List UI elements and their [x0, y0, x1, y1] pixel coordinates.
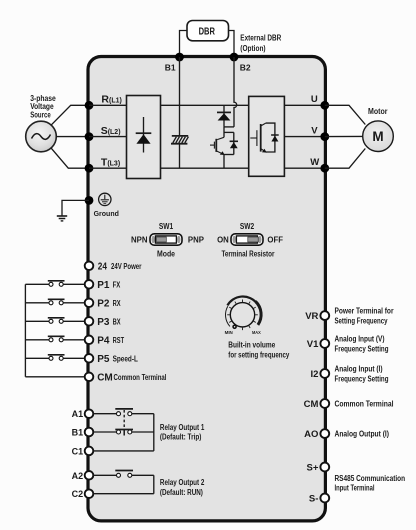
svg-text:Common Terminal: Common Terminal	[335, 399, 394, 408]
terminal A1 (relay 1)	[72, 409, 94, 419]
terminal W	[310, 157, 329, 173]
ground (protective earth badge)	[99, 193, 111, 205]
terminal AO	[304, 429, 329, 440]
svg-text:Source: Source	[30, 111, 51, 120]
wire B1 to DC link	[179, 57, 181, 135]
label Built-in volume for setting frequency	[228, 341, 290, 360]
svg-text:Setting Frequency: Setting Frequency	[335, 316, 389, 325]
wire B2 down with hop over DC+ bus	[234, 57, 237, 127]
terminal B1 (relay 1)	[72, 428, 94, 438]
label CM description	[335, 399, 394, 408]
terminal P2 (RX)	[85, 299, 121, 310]
switch contact P4	[25, 336, 84, 342]
terminal C2 (relay 2)	[72, 489, 94, 499]
terminal I2	[310, 369, 329, 380]
label VR description	[335, 307, 394, 326]
terminal CM (analog common)	[304, 399, 330, 410]
relay contact K2 NO (A2)	[93, 471, 154, 478]
terminal ground (junction on enclosure)	[85, 196, 94, 205]
ground (earth symbol)	[57, 216, 67, 221]
label Motor	[368, 107, 388, 116]
svg-text:MIN: MIN	[225, 330, 234, 336]
label RS485 description	[335, 474, 406, 493]
svg-text:(Default: Trip): (Default: Trip)	[160, 433, 202, 442]
svg-text:Mode: Mode	[157, 249, 176, 258]
wire Q1 emitter to DC-	[224, 155, 234, 169]
terminal 24 (24V power)	[85, 261, 142, 272]
svg-text:Input Terminal: Input Terminal	[335, 484, 375, 493]
svg-text:C1: C1	[72, 446, 84, 456]
svg-text:Analog Output (I): Analog Output (I)	[335, 430, 390, 439]
wire source to S(L2)	[56, 136, 89, 138]
svg-text:B1: B1	[72, 428, 84, 438]
svg-text:V: V	[311, 125, 318, 136]
label Terminal Resistor	[222, 249, 275, 258]
capacitor C1 (DC link)	[171, 136, 188, 168]
svg-text:C2: C2	[72, 489, 84, 499]
wire S to rectifier	[89, 136, 127, 138]
potentiometer VR1 (built-in volume)	[225, 297, 261, 331]
svg-text:DBR: DBR	[199, 26, 215, 37]
motor M1	[363, 121, 394, 152]
terminal U	[311, 94, 329, 110]
svg-text:Frequency Setting: Frequency Setting	[335, 344, 389, 353]
label External DBR (Option)	[240, 33, 281, 52]
svg-text:VR: VR	[305, 311, 318, 322]
svg-text:Relay Output 1: Relay Output 1	[160, 423, 205, 432]
svg-text:W: W	[310, 157, 319, 168]
wire ground lead	[62, 200, 89, 215]
svg-text:RX: RX	[113, 299, 122, 308]
terminal B1	[165, 53, 184, 73]
rectifier bridge block	[127, 96, 161, 179]
wire U to motor	[325, 105, 366, 124]
label 3-phase Voltage Source	[30, 94, 56, 120]
diode D1 (rectifier symbol)	[136, 117, 152, 153]
svg-text:S-: S-	[309, 494, 319, 505]
label I2 description	[335, 365, 389, 384]
wire inverter to U	[284, 104, 324, 106]
wire C2 to relay common	[93, 475, 154, 493]
label ON	[217, 235, 229, 244]
svg-text:S+: S+	[307, 463, 319, 474]
terminal S(L2)	[85, 125, 121, 141]
terminal P4 (RST)	[85, 336, 125, 347]
svg-text:Relay Output 2: Relay Output 2	[160, 478, 205, 487]
label MAX	[252, 330, 261, 336]
wire digital input bus	[24, 284, 26, 377]
svg-text:24V Power: 24V Power	[111, 262, 142, 271]
label Relay Output 2	[160, 478, 205, 497]
svg-text:I2: I2	[310, 369, 318, 380]
svg-text:B1: B1	[165, 63, 176, 73]
switch contact P1	[25, 281, 84, 287]
svg-text:A2: A2	[72, 471, 84, 481]
svg-text:Common Terminal: Common Terminal	[114, 373, 167, 382]
svg-text:SW2: SW2	[240, 222, 255, 231]
transistor Q1 (brake chopper IGBT)	[210, 137, 225, 155]
terminal R(L1)	[85, 94, 122, 110]
svg-text:OFF: OFF	[267, 235, 283, 244]
terminal P3 (BX)	[85, 317, 121, 328]
label SW2	[240, 222, 255, 231]
terminal C1 (relay 1)	[72, 446, 94, 456]
svg-text:(Option): (Option)	[240, 44, 266, 53]
svg-text:Speed-L: Speed-L	[113, 354, 138, 363]
svg-text:RS485 Communication: RS485 Communication	[335, 474, 406, 483]
wire source to T(L3)	[51, 148, 89, 168]
svg-text:MAX: MAX	[252, 330, 261, 336]
main enclosure (drive unit)	[88, 57, 325, 521]
switch contact P2	[25, 299, 84, 305]
svg-text:24: 24	[98, 261, 108, 272]
svg-text:Built-in volume: Built-in volume	[228, 341, 276, 350]
svg-text:A1: A1	[72, 409, 84, 419]
label SW1	[159, 222, 174, 231]
terminal P5 (Speed-L)	[85, 354, 138, 365]
wire source to R(L1)	[51, 105, 89, 125]
relay contact K1 NC (B1)	[93, 430, 154, 436]
svg-text:(Default: RUN): (Default: RUN)	[160, 488, 203, 497]
svg-text:P1: P1	[97, 280, 110, 291]
svg-text:P5: P5	[97, 354, 110, 365]
svg-text:Analog Input (I): Analog Input (I)	[335, 365, 383, 374]
relay contact K1 NO (A1)	[93, 409, 154, 416]
svg-text:SW1: SW1	[159, 222, 174, 231]
label OFF	[267, 235, 283, 244]
switch SW1 (NPN/PNP mode)	[150, 234, 182, 245]
svg-text:CM: CM	[304, 399, 319, 410]
svg-text:for setting frequency: for setting frequency	[228, 350, 290, 359]
terminal V1	[307, 339, 329, 350]
terminal T(L3)	[85, 156, 121, 172]
label PNP	[188, 235, 204, 244]
svg-text:PNP: PNP	[188, 235, 204, 244]
mechanical link K1 (dashed)	[123, 410, 125, 429]
label Relay Output 1	[160, 423, 205, 442]
switch contact P5	[25, 355, 84, 361]
wire DC- bus	[161, 167, 249, 169]
svg-text:Analog Input (V): Analog Input (V)	[335, 335, 385, 344]
svg-text:RST: RST	[113, 336, 125, 345]
wire inverter to W	[284, 167, 324, 169]
label Ground	[94, 211, 119, 218]
switch SW2 (terminal resistor)	[231, 234, 263, 245]
wire T to rectifier	[89, 167, 127, 169]
label Mode	[157, 249, 176, 258]
label V1 description	[335, 335, 389, 354]
wire C1 to relay common	[93, 414, 154, 451]
diode D4 (Q2 anti-parallel)	[271, 135, 279, 142]
wire W to motor	[325, 149, 366, 169]
wire V to motor	[325, 135, 363, 137]
resistor DBR (external brake resistor)	[187, 21, 229, 41]
svg-text:Terminal Resistor: Terminal Resistor	[222, 249, 275, 258]
svg-text:Power Terminal for: Power Terminal for	[335, 307, 394, 316]
svg-text:U: U	[311, 94, 318, 105]
svg-text:ON: ON	[217, 235, 229, 244]
switch contact P3	[25, 318, 84, 324]
svg-text:BX: BX	[113, 317, 122, 326]
svg-text:P3: P3	[97, 317, 110, 328]
svg-text:External DBR: External DBR	[240, 33, 281, 42]
svg-text:Motor: Motor	[368, 107, 388, 116]
svg-text:CM: CM	[97, 373, 113, 384]
label MIN	[225, 330, 234, 336]
terminal A2 (relay 2)	[72, 471, 94, 481]
diode D3 (Q1 anti-parallel)	[230, 132, 238, 154]
node B2-chopper junction	[224, 127, 234, 137]
svg-text:Frequency Setting: Frequency Setting	[335, 374, 389, 383]
terminal S+	[307, 463, 330, 474]
transistor Q2 (inverter IGBT)	[250, 123, 275, 153]
svg-text:AO: AO	[304, 429, 318, 440]
svg-text:B2: B2	[240, 63, 251, 73]
terminal VR	[305, 311, 329, 322]
wire DC+ bus	[161, 104, 249, 106]
label NPN	[131, 235, 148, 244]
svg-text:P4: P4	[97, 336, 110, 347]
wire DBR to B2	[229, 31, 235, 58]
svg-text:Ground: Ground	[94, 211, 119, 218]
terminal CM (common)	[85, 373, 167, 384]
label AO description	[335, 430, 390, 439]
svg-text:P2: P2	[97, 299, 110, 310]
wire bus to CM	[25, 376, 84, 378]
source V1 (3-phase voltage source)	[26, 121, 57, 152]
svg-text:FX: FX	[113, 280, 121, 289]
wire R to rectifier	[89, 104, 127, 106]
terminal V	[311, 125, 329, 141]
svg-text:V1: V1	[307, 339, 319, 350]
terminal B2	[230, 53, 251, 73]
svg-text:M: M	[372, 129, 383, 144]
inverter block	[249, 96, 285, 176]
terminal P1 (FX)	[85, 280, 121, 291]
terminal S-	[309, 494, 329, 505]
svg-text:NPN: NPN	[131, 235, 148, 244]
wire inverter to V	[284, 136, 324, 138]
diode D2 (brake freewheel)	[217, 105, 231, 127]
wire B1 to DBR	[180, 31, 188, 58]
